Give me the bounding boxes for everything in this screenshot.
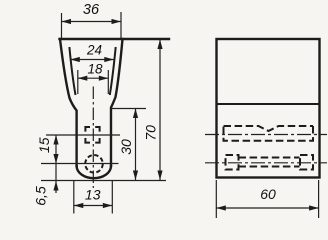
right view: outline rectangle xyxy=(217,39,320,178)
dimension 60: dimension line with arrows xyxy=(216,205,318,210)
svg-text:36: 36 xyxy=(83,2,100,18)
dimension 6.5: dimension line with outside arrow xyxy=(53,164,58,194)
svg-text:6,5: 6,5 xyxy=(33,186,49,206)
svg-text:30: 30 xyxy=(118,139,134,155)
left view: hidden circle (rivet hole) xyxy=(85,155,103,173)
left view: hidden square (bar cross-section) xyxy=(85,127,99,143)
left view: inner fold lines xyxy=(69,47,115,95)
right view: hidden rivet axle xyxy=(226,155,314,170)
svg-text:18: 18 xyxy=(87,62,103,77)
right view: fold edge line xyxy=(217,103,320,105)
dimension 13: extension lines xyxy=(74,181,113,214)
dimension 15: dimension line with arrows xyxy=(53,135,58,164)
left view: extension line y135 (15 top) xyxy=(46,134,120,136)
left view: outer outline of strap clamp xyxy=(60,39,170,178)
dimension 30: top extension line xyxy=(111,108,147,110)
svg-text:15: 15 xyxy=(36,137,52,153)
right view: hidden bar with V-notch xyxy=(224,126,314,141)
left view: vertical centerline xyxy=(92,87,94,189)
svg-text:13: 13 xyxy=(85,186,101,202)
left view: hole centerline y163.5 (15 bottom) xyxy=(41,163,119,165)
right view: lower centerline xyxy=(205,162,327,164)
dimension 18: dimension line with arrows xyxy=(78,76,109,81)
dimension 36: dimension line with arrows xyxy=(62,19,122,24)
dimension 60: extension lines xyxy=(216,180,318,218)
left view: bottom reference line y180.5 xyxy=(41,180,166,182)
svg-text:70: 70 xyxy=(143,125,159,141)
dimension 13: dimension line with arrows xyxy=(74,203,113,208)
right view: upper centerline xyxy=(205,134,327,136)
svg-text:60: 60 xyxy=(260,186,276,202)
svg-text:24: 24 xyxy=(86,43,102,58)
dimension 70: dimension line with arrows xyxy=(157,40,162,181)
dimension 24: dimension line with arrows xyxy=(70,57,114,62)
dimension 30: dimension line with arrows xyxy=(133,109,138,181)
dimension 36: extension lines xyxy=(62,12,122,38)
dimension 18: extension lines xyxy=(78,70,109,94)
